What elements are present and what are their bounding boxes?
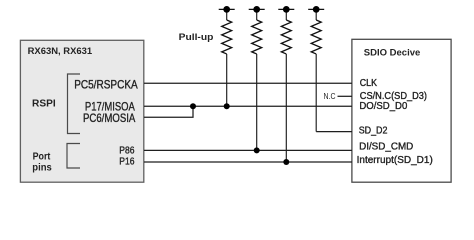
svg-text:Pull-up: Pull-up bbox=[179, 32, 214, 42]
svg-text:N.C: N.C bbox=[324, 92, 336, 101]
svg-text:PC6/MOSIA: PC6/MOSIA bbox=[83, 111, 135, 125]
svg-text:Interrupt(SD_D1): Interrupt(SD_D1) bbox=[357, 155, 433, 166]
svg-text:SD_D2: SD_D2 bbox=[359, 125, 388, 136]
svg-text:PC5/RSPCKA: PC5/RSPCKA bbox=[74, 78, 138, 92]
svg-text:DO/SD_D0: DO/SD_D0 bbox=[359, 101, 407, 112]
svg-text:RX63N, RX631: RX63N, RX631 bbox=[28, 46, 93, 57]
svg-text:P16: P16 bbox=[119, 157, 135, 168]
svg-text:P86: P86 bbox=[119, 146, 135, 157]
svg-text:CS/N.C(SD_D3): CS/N.C(SD_D3) bbox=[360, 91, 427, 102]
svg-text:DI/SD_CMD: DI/SD_CMD bbox=[359, 142, 413, 153]
svg-text:pins: pins bbox=[32, 161, 52, 173]
svg-text:SDIO Decive: SDIO Decive bbox=[364, 47, 421, 58]
svg-text:RSPI: RSPI bbox=[32, 98, 56, 110]
svg-text:CLK: CLK bbox=[360, 78, 377, 89]
